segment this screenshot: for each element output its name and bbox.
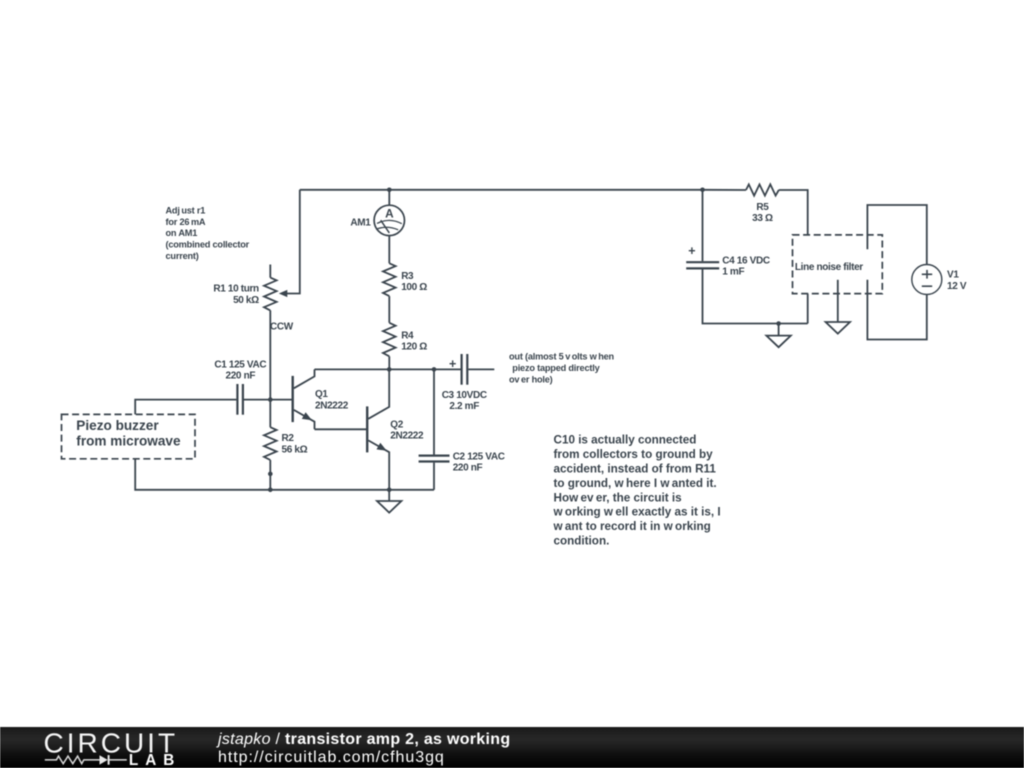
- node dot top rail at AM1: [387, 188, 392, 193]
- svg-text:Q2: Q2: [390, 420, 403, 431]
- wire AM1 to R3: [388, 236, 390, 264]
- wire C2 bottom lead: [433, 463, 435, 490]
- svg-text:R5: R5: [756, 202, 769, 213]
- svg-text:C10 is actually connected: C10 is actually connected: [554, 434, 697, 447]
- wire R1 to base node: [269, 310, 271, 399]
- svg-text:piezo tapped directly: piezo tapped directly: [512, 363, 600, 373]
- wire R4 to collector rail: [388, 356, 390, 369]
- svg-text:for 26 mA: for 26 mA: [166, 217, 206, 227]
- node dot top rail at C4: [700, 188, 705, 193]
- svg-text:+: +: [449, 357, 456, 371]
- capacitor C4: [686, 262, 719, 268]
- svg-text:12 V: 12 V: [947, 281, 967, 292]
- svg-text:accident, instead of from R11: accident, instead of from R11: [554, 463, 717, 476]
- svg-text:R3: R3: [401, 271, 414, 282]
- svg-text:How ev er, the circuit is: How ev er, the circuit is: [554, 491, 683, 504]
- svg-text:Piezo buzzer: Piezo buzzer: [76, 418, 159, 433]
- svg-text:w ant to record it in w orking: w ant to record it in w orking: [553, 520, 711, 533]
- potentiometer R1: [264, 265, 287, 311]
- node dot bottom wire at Q2: [387, 488, 392, 493]
- node dot R2 bottom: [268, 472, 273, 477]
- capacitor C3: [462, 354, 468, 385]
- resistor R2: [264, 400, 277, 490]
- svg-text:(combined collector: (combined collector: [166, 240, 250, 250]
- svg-text:from microwave: from microwave: [76, 434, 181, 449]
- voltage source V1: [912, 265, 942, 295]
- svg-text:Adj ust r1: Adj ust r1: [166, 205, 206, 215]
- svg-text:current): current): [166, 251, 199, 261]
- svg-text:out (almost 5 v olts w hen: out (almost 5 v olts w hen: [509, 352, 615, 362]
- wire R5 leads: [703, 190, 808, 235]
- svg-text:R2: R2: [282, 433, 295, 444]
- svg-text:50 kΩ: 50 kΩ: [233, 295, 259, 306]
- wire AM1 top lead: [388, 190, 390, 205]
- svg-text:2N2222: 2N2222: [390, 431, 424, 442]
- svg-text:C4 16 VDC: C4 16 VDC: [722, 255, 770, 266]
- svg-text:on AM1: on AM1: [166, 228, 198, 238]
- ground below Q2 emitter: [377, 490, 401, 513]
- svg-text:56 kΩ: 56 kΩ: [282, 444, 308, 455]
- note C10: [553, 434, 721, 548]
- wire V1 loop: [867, 205, 926, 340]
- svg-text:C2 125 VAC: C2 125 VAC: [453, 452, 505, 463]
- wire top rail left segment: [300, 189, 703, 191]
- svg-text:A: A: [385, 206, 394, 220]
- svg-text:2N2222: 2N2222: [315, 400, 349, 411]
- svg-text:+: +: [688, 244, 695, 258]
- svg-text:1 mF: 1 mF: [722, 267, 744, 278]
- wire C1 to Q1 base: [244, 399, 293, 401]
- logo diode triangle: [100, 755, 108, 764]
- transistor Q1: [293, 369, 315, 429]
- svg-text:from collectors to ground by: from collectors to ground by: [554, 448, 714, 461]
- note out: [509, 352, 615, 385]
- svg-text:ov er hole): ov er hole): [509, 375, 553, 385]
- resistor R5: [746, 184, 779, 195]
- note Adjust r1: [166, 205, 250, 261]
- ground below C4 rail: [766, 324, 790, 348]
- node dot Q1 base: [268, 397, 273, 402]
- svg-text:100 Ω: 100 Ω: [401, 282, 427, 293]
- svg-text:CCW: CCW: [270, 321, 294, 332]
- resistor R3: [383, 263, 396, 296]
- svg-text:Line noise filter: Line noise filter: [795, 262, 863, 273]
- wire C3 output stub: [468, 368, 494, 370]
- wire C2 top lead: [433, 369, 435, 454]
- wire piezo bottom lead: [135, 459, 434, 490]
- svg-text:220 nF: 220 nF: [226, 371, 256, 382]
- svg-text:LAB: LAB: [129, 752, 181, 768]
- node dot collector rail at Q2: [387, 367, 392, 372]
- svg-text:Q1: Q1: [315, 389, 328, 400]
- line noise filter box: [793, 235, 883, 294]
- wire collector rail: [315, 368, 461, 370]
- logo lead wire: [109, 759, 126, 761]
- svg-text:33 Ω: 33 Ω: [752, 213, 773, 224]
- note Piezo buzzer: [76, 418, 181, 449]
- wire R1 wiper riser: [287, 190, 300, 294]
- svg-text:C3 10VDC: C3 10VDC: [442, 390, 487, 401]
- capacitor C1: [237, 384, 243, 415]
- transistor Q2: [367, 369, 389, 489]
- logo resistor-diode squiggle: [45, 756, 100, 764]
- svg-text:220 nF: 220 nF: [453, 463, 483, 474]
- svg-text:to ground, w here I w anted it: to ground, w here I w anted it.: [554, 477, 717, 490]
- CircuitLab logo: [0, 727, 260, 768]
- capacitor C2: [419, 456, 450, 462]
- svg-text:2.2 mF: 2.2 mF: [449, 401, 479, 412]
- logo diode cathode bar: [108, 755, 110, 765]
- wire Q1 emitter to Q2 base: [315, 428, 368, 430]
- ground of line noise filter: [826, 280, 850, 334]
- piezo buzzer box: [62, 414, 196, 458]
- wire R3 to R4: [388, 296, 390, 323]
- node dot collector rail at C2: [432, 367, 437, 372]
- node dot C4 bottom rail: [776, 321, 781, 326]
- svg-text:w orking w ell exactly as it i: w orking w ell exactly as it is, I: [553, 506, 721, 519]
- svg-text:V1: V1: [947, 269, 959, 280]
- svg-text:condition.: condition.: [554, 535, 610, 548]
- bottom title bar: [0, 727, 1024, 768]
- url text: [218, 749, 445, 767]
- svg-text:AM1: AM1: [350, 217, 371, 228]
- svg-text:C1 125 VAC: C1 125 VAC: [214, 359, 266, 370]
- wire piezo top lead: [135, 400, 236, 415]
- svg-text:120 Ω: 120 Ω: [401, 342, 427, 353]
- svg-text:R4: R4: [401, 330, 414, 341]
- ammeter AM1: [374, 205, 404, 235]
- node dot bottom wire at R2: [268, 488, 273, 493]
- wire C4 leads: [703, 190, 808, 324]
- title text: [218, 731, 510, 749]
- resistor R4: [383, 323, 396, 357]
- svg-text:R1 10 turn: R1 10 turn: [213, 284, 259, 295]
